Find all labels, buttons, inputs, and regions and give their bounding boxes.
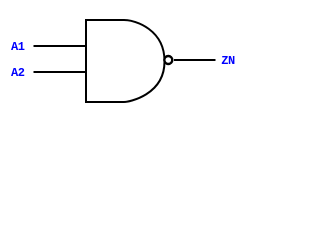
wire A2 input (34, 71, 87, 73)
inversion bubble (164, 56, 172, 64)
svg-text:A1: A1 (11, 40, 25, 54)
svg-text:A2: A2 (11, 66, 25, 80)
wire A1 input (34, 45, 87, 47)
nand-gate U1 body (86, 20, 165, 102)
svg-text:ZN: ZN (221, 54, 235, 68)
wire ZN output (174, 59, 216, 61)
